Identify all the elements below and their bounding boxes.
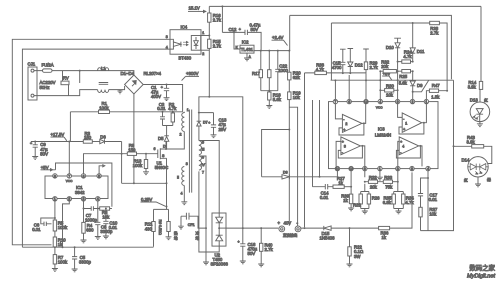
svg-text:10k: 10k bbox=[386, 93, 394, 98]
svg-text:FU/2A: FU/2A bbox=[42, 62, 54, 67]
node VCC to IC1 pin7 bbox=[68, 141, 70, 174]
resistor R33 75k bottom bbox=[383, 175, 398, 189]
svg-text:20k: 20k bbox=[370, 184, 378, 189]
svg-text:+: + bbox=[278, 221, 281, 226]
resistor R30 10k bbox=[380, 84, 397, 98]
node: +2.4V branch bbox=[288, 129, 290, 131]
resistor R6 0.51ohm (vertical text) bbox=[158, 220, 172, 240]
svg-text:150: 150 bbox=[128, 147, 136, 152]
resistor R3 150 bbox=[83, 131, 100, 143]
resistor R20 62k bbox=[288, 71, 302, 81]
resistor R14 3.9k bbox=[468, 6, 483, 103]
wire: opto pin2 to R15 bottom bbox=[201, 49, 209, 51]
svg-text:IC3: IC3 bbox=[378, 127, 385, 132]
svg-text:III: III bbox=[202, 148, 205, 152]
svg-text:3.9k: 3.9k bbox=[467, 139, 476, 144]
svg-text:地: 地 bbox=[174, 236, 178, 241]
svg-text:0.01: 0.01 bbox=[32, 227, 41, 232]
svg-text:红: 红 bbox=[484, 97, 488, 102]
svg-text:1: 1 bbox=[202, 31, 204, 35]
wire: VREF +5V to R8 bbox=[53, 163, 112, 207]
LED D13 red bbox=[470, 97, 490, 126]
svg-text:1: 1 bbox=[425, 100, 427, 104]
wire: pin13 column down bbox=[350, 171, 352, 194]
svg-text:D12: D12 bbox=[355, 62, 363, 67]
wire: D6 drop to primary return bbox=[121, 142, 123, 184]
capacitor C1 47u 400V bbox=[151, 84, 170, 101]
svg-text:+: + bbox=[30, 141, 32, 145]
wire: secondary center tap pin6 bbox=[199, 156, 206, 262]
svg-text:1: 1 bbox=[405, 122, 407, 126]
resistor R22 0.1ohm 3W bbox=[347, 227, 364, 267]
wire: right loop down bbox=[421, 80, 454, 230]
ground: EMI bbox=[118, 90, 123, 94]
svg-text:+: + bbox=[239, 28, 241, 32]
svg-text:7: 7 bbox=[334, 100, 336, 104]
resistor R7 100k bbox=[52, 255, 68, 272]
svg-text:直流输出: 直流输出 bbox=[283, 232, 298, 237]
svg-text:4: 4 bbox=[166, 45, 168, 49]
terminal - output bbox=[295, 221, 301, 232]
node: D8 line tap bbox=[319, 176, 321, 178]
svg-text:2: 2 bbox=[180, 132, 182, 136]
IC2 TL431 bbox=[233, 31, 289, 60]
capacitor C7 1000p bbox=[85, 206, 98, 222]
svg-text:2.7k: 2.7k bbox=[370, 65, 379, 70]
resistor R36 1k bbox=[379, 172, 412, 240]
svg-text:1k: 1k bbox=[343, 198, 348, 203]
wire: IC1 pin4 RT/CT node bbox=[97, 201, 99, 210]
svg-text:4700: 4700 bbox=[332, 65, 342, 70]
resistor R9 150 bbox=[127, 143, 158, 155]
pin labels IC4 bbox=[166, 31, 205, 56]
svg-text:D8: D8 bbox=[283, 170, 288, 174]
svg-text:0.01: 0.01 bbox=[109, 225, 118, 230]
resistor R29 2.7k bbox=[363, 49, 378, 73]
resistor R47 1.5k bbox=[426, 83, 448, 99]
op-amp U3D bbox=[396, 137, 422, 167]
svg-text:50V: 50V bbox=[248, 251, 256, 256]
svg-text:5: 5 bbox=[98, 174, 100, 178]
svg-text:+: + bbox=[208, 121, 210, 125]
resistor R27 1k bbox=[333, 176, 351, 188]
svg-text:50V: 50V bbox=[40, 151, 48, 156]
label +40V DC output bbox=[283, 221, 298, 238]
svg-text:LM324N: LM324N bbox=[375, 133, 391, 138]
resistor R5 100k bbox=[53, 220, 68, 231]
svg-text:VCC: VCC bbox=[376, 105, 383, 109]
svg-text:MyDigit.net: MyDigit.net bbox=[467, 274, 495, 280]
resistor R4 680 bbox=[81, 222, 95, 242]
wire: secondary pin7 loop to U2 bottom bbox=[199, 171, 219, 252]
wire: diagonal to +5V rail bbox=[413, 80, 429, 92]
LM324 bottom pins bbox=[335, 166, 430, 171]
svg-text:+2.4V: +2.4V bbox=[272, 35, 283, 40]
wire: +300V rail from bridge bbox=[143, 85, 182, 112]
wire: opto pin1 to R16/R15 junction bbox=[201, 35, 209, 37]
svg-text:+: + bbox=[161, 85, 163, 89]
svg-text:VCC: VCC bbox=[66, 179, 73, 183]
capacitor C17 0.01 and resistor R37 10k chain bbox=[418, 177, 438, 231]
svg-text:R26: R26 bbox=[372, 195, 380, 200]
diode D15 1N5408 bbox=[320, 226, 336, 241]
capacitor C9 47u 50V bbox=[30, 141, 48, 160]
capacitor C22 1000 bbox=[275, 50, 288, 91]
svg-text:+: + bbox=[403, 127, 405, 131]
optocoupler IC4 BT430 bbox=[170, 24, 201, 60]
svg-text:8: 8 bbox=[54, 174, 56, 178]
svg-text:13: 13 bbox=[349, 167, 353, 171]
label +2.4V bbox=[272, 35, 288, 46]
svg-text:2.7k: 2.7k bbox=[430, 30, 439, 35]
pin 4 bbox=[96, 197, 100, 202]
capacitor C14 0.01 bbox=[313, 184, 334, 200]
svg-text:50Hz: 50Hz bbox=[40, 85, 50, 90]
resistors R31 R26 parallel pair bbox=[353, 171, 380, 214]
svg-text:D11: D11 bbox=[417, 49, 425, 54]
svg-text:R6 0.51Ω: R6 0.51Ω bbox=[158, 220, 162, 236]
svg-text:0.01: 0.01 bbox=[320, 195, 329, 200]
wire: mid vertical taps bbox=[313, 100, 320, 187]
svg-text:CJ1: CJ1 bbox=[28, 62, 36, 67]
node: R17 bottom bus bbox=[261, 90, 278, 92]
svg-text:D5: D5 bbox=[158, 136, 164, 141]
svg-text:15.1V: 15.1V bbox=[189, 5, 200, 10]
svg-text:6: 6 bbox=[364, 167, 366, 171]
svg-text:20k: 20k bbox=[381, 64, 389, 69]
svg-text:数码之家: 数码之家 bbox=[469, 263, 495, 272]
svg-text:D9: D9 bbox=[417, 83, 423, 88]
diode D6 bbox=[100, 134, 122, 143]
wire: gate drive from pin 6 bbox=[84, 154, 128, 174]
svg-text:6: 6 bbox=[83, 174, 85, 178]
resistor R38 4.7k bbox=[315, 62, 366, 74]
connector CJ1 bbox=[28, 62, 38, 101]
svg-text:R25: R25 bbox=[399, 74, 407, 79]
svg-text:25V: 25V bbox=[219, 127, 227, 132]
capacitor C10 0.01 bbox=[103, 208, 118, 239]
pin 3 bbox=[81, 197, 85, 202]
svg-text:12: 12 bbox=[364, 100, 368, 104]
resistor (parallel with R17) bbox=[268, 50, 271, 91]
wire: bridge negative drop bbox=[133, 94, 135, 183]
ground: center tap bbox=[203, 262, 209, 265]
wire: box left edge bbox=[330, 23, 332, 80]
svg-text:10k: 10k bbox=[293, 95, 301, 100]
pin 6 bbox=[81, 174, 85, 179]
svg-text:D14: D14 bbox=[462, 157, 470, 162]
svg-text:RL207×4: RL207×4 bbox=[144, 71, 162, 76]
resistor R32 20k bbox=[380, 59, 397, 73]
svg-text:1: 1 bbox=[379, 167, 381, 171]
resistor R28 2.7k bbox=[331, 21, 447, 90]
wire: AC neutral bottom bbox=[34, 90, 98, 96]
pin 1 bbox=[53, 197, 57, 202]
svg-text:50V: 50V bbox=[251, 27, 259, 32]
svg-text:1k: 1k bbox=[382, 235, 387, 240]
label +5V with arrow bbox=[41, 165, 53, 171]
opto phototransistor bbox=[191, 36, 200, 51]
svg-text:4: 4 bbox=[379, 100, 381, 104]
LM324 top pins bbox=[333, 99, 428, 104]
ground: pin1 bottom bbox=[377, 171, 383, 180]
svg-text:3: 3 bbox=[397, 167, 399, 171]
svg-text:冷: 冷 bbox=[196, 231, 200, 236]
svg-text:1000: 1000 bbox=[278, 68, 288, 73]
op-amp U3A bbox=[398, 104, 427, 134]
svg-text:D13: D13 bbox=[470, 97, 478, 102]
svg-text:2: 2 bbox=[68, 197, 70, 201]
varistor RV bbox=[61, 71, 69, 96]
transformer T primary winding bbox=[180, 108, 189, 137]
pin 8 bbox=[53, 174, 57, 179]
transformer secondary winding bbox=[199, 140, 206, 174]
svg-text:2.7k: 2.7k bbox=[213, 44, 222, 49]
rectifier U2 T450 SF10066 bbox=[211, 213, 229, 267]
inductor L1 common-mode choke bbox=[98, 66, 125, 93]
resistor R25 5.6k bbox=[398, 70, 413, 86]
resistor R40 2.7k bbox=[258, 227, 273, 267]
wire: negative return bbox=[301, 227, 379, 229]
svg-text:1N5408: 1N5408 bbox=[320, 236, 336, 241]
transformer aux winding bbox=[177, 162, 188, 195]
svg-text:7: 7 bbox=[202, 170, 204, 174]
svg-text:R32: R32 bbox=[369, 175, 377, 180]
svg-text:+: + bbox=[238, 240, 240, 244]
watermark bbox=[467, 263, 496, 280]
bridge rectifier D1~D4 RL207x4 bbox=[121, 71, 162, 94]
node: minus rail taps bbox=[304, 227, 306, 229]
node: pin9 column R30 tap bbox=[397, 79, 399, 91]
wire: +5V rail bbox=[331, 79, 454, 81]
fuse FU/2A bbox=[42, 62, 54, 72]
svg-text:3: 3 bbox=[166, 35, 168, 39]
svg-text:0.01: 0.01 bbox=[157, 106, 166, 111]
label +300V bbox=[182, 71, 199, 80]
wire: primary return rail bbox=[122, 182, 167, 184]
svg-text:2: 2 bbox=[345, 122, 347, 126]
svg-text:热: 热 bbox=[174, 231, 178, 236]
svg-text:红: 红 bbox=[464, 177, 468, 182]
op-amp U3B bbox=[335, 104, 365, 135]
LED D14 red/green dual bbox=[462, 157, 492, 187]
diode D8 bbox=[282, 170, 289, 179]
wire: pin4 VCC column bbox=[379, 71, 381, 99]
svg-text:1.5k: 1.5k bbox=[431, 94, 440, 99]
resistor R10 1k bbox=[53, 237, 66, 248]
svg-text:IC2: IC2 bbox=[242, 39, 249, 44]
wire: pin7 column up bbox=[334, 79, 336, 99]
label 0.25V bbox=[141, 197, 166, 207]
svg-text:4.7k: 4.7k bbox=[403, 54, 412, 59]
resistor R43 3.9k bbox=[453, 135, 492, 164]
wire: ground return rail bbox=[22, 246, 153, 248]
svg-text:2: 2 bbox=[202, 52, 204, 56]
svg-text:3: 3 bbox=[83, 197, 85, 201]
svg-text:400V: 400V bbox=[151, 94, 161, 99]
terminal + output bbox=[278, 221, 285, 232]
node: live junction bbox=[79, 70, 81, 83]
svg-text:7: 7 bbox=[68, 174, 70, 178]
wire: second rail bbox=[290, 15, 452, 79]
wire: minus sense column bbox=[289, 107, 297, 226]
wire: IC1 pin3 column bbox=[83, 201, 92, 240]
svg-text:+17.5V: +17.5V bbox=[51, 132, 65, 137]
wire: +40V output rail bbox=[226, 227, 278, 229]
svg-text:8: 8 bbox=[411, 167, 413, 171]
svg-text:11: 11 bbox=[336, 167, 340, 171]
resistor R39 1k bbox=[341, 194, 354, 211]
svg-text:3842: 3842 bbox=[75, 190, 85, 195]
svg-text:+: + bbox=[400, 140, 402, 144]
svg-text:2.7k: 2.7k bbox=[265, 247, 274, 252]
ground: aux pin4 bbox=[181, 191, 187, 205]
svg-text:CF1: CF1 bbox=[188, 223, 195, 227]
resistor R1 100k bbox=[70, 101, 182, 141]
svg-text:II: II bbox=[177, 176, 179, 180]
svg-text:+300V: +300V bbox=[186, 71, 199, 76]
wire +17.5V VCC rail bbox=[31, 141, 83, 143]
svg-text:9: 9 bbox=[397, 100, 399, 104]
svg-text:R17: R17 bbox=[252, 71, 260, 76]
node: gate junction bbox=[121, 153, 147, 155]
transformer core bbox=[189, 110, 191, 193]
svg-text:3.9k: 3.9k bbox=[468, 85, 477, 90]
node: R24/R25 junctions bbox=[379, 61, 413, 73]
svg-text:地: 地 bbox=[196, 236, 200, 241]
svg-text:D10: D10 bbox=[386, 45, 394, 50]
wire: +2.4V reference column bbox=[288, 15, 290, 225]
wire: pin5 hook arrow bbox=[99, 165, 105, 174]
capacitor CF1 Y-cap bbox=[178, 213, 207, 229]
svg-text:4: 4 bbox=[97, 197, 99, 201]
svg-text:1: 1 bbox=[54, 197, 56, 201]
label +5V tick bbox=[382, 71, 392, 80]
svg-text:0.25V: 0.25V bbox=[141, 197, 152, 202]
diode D7 bbox=[197, 113, 208, 126]
svg-text:D7: D7 bbox=[203, 121, 208, 125]
resistor R11 430 bbox=[145, 222, 155, 247]
svg-text:4.7k: 4.7k bbox=[168, 106, 177, 111]
svg-text:IC4: IC4 bbox=[181, 24, 188, 29]
capacitor C16 470u 50V bbox=[238, 227, 258, 264]
capacitor C3 0.01 (clamp) bbox=[157, 102, 166, 126]
svg-text:D1~D4: D1~D4 bbox=[121, 71, 135, 76]
svg-text:R47: R47 bbox=[432, 83, 440, 88]
node: bridge return join bbox=[133, 182, 135, 184]
resistor R32b 20k bottom bbox=[364, 175, 384, 189]
resistor R15 2.7k bbox=[208, 35, 222, 98]
diode D10 bbox=[386, 38, 401, 99]
svg-text:SF10066: SF10066 bbox=[211, 262, 229, 267]
svg-text:150: 150 bbox=[84, 135, 92, 140]
svg-text:4: 4 bbox=[402, 145, 404, 149]
resistor R13 100k bbox=[133, 154, 149, 175]
svg-text:5.6k: 5.6k bbox=[399, 81, 408, 86]
svg-text:3300p: 3300p bbox=[79, 259, 92, 264]
svg-text:680: 680 bbox=[86, 227, 94, 232]
wire: top 15.1V rail bbox=[209, 5, 481, 7]
opto LED emitter bbox=[170, 39, 188, 49]
diode D11 bbox=[410, 22, 425, 62]
svg-text:100k: 100k bbox=[58, 259, 68, 264]
svg-text:5.6k: 5.6k bbox=[273, 97, 282, 102]
svg-text:R31: R31 bbox=[353, 202, 361, 207]
op-amp U3C bbox=[336, 137, 365, 167]
resistor R2 4.7k (clamp) bbox=[163, 102, 178, 136]
IC1 UC3842 box bbox=[45, 176, 108, 199]
diode D12 zener bbox=[348, 49, 364, 75]
svg-text:R30: R30 bbox=[386, 84, 394, 89]
svg-text:+5V: +5V bbox=[41, 165, 49, 170]
svg-text:1000p: 1000p bbox=[85, 217, 98, 222]
svg-text:75k: 75k bbox=[385, 184, 393, 189]
svg-text:100k: 100k bbox=[99, 106, 109, 111]
svg-text:IV: IV bbox=[202, 163, 206, 167]
svg-text:40V: 40V bbox=[284, 221, 292, 226]
svg-text:R33: R33 bbox=[384, 175, 392, 180]
transistor Q1/U1 5N60C MOSFET bbox=[154, 145, 169, 184]
svg-text:6.8k: 6.8k bbox=[383, 200, 392, 205]
diode D5 clamp bbox=[158, 136, 169, 149]
resistor R8 10k bbox=[98, 207, 112, 220]
svg-text:2: 2 bbox=[412, 100, 414, 104]
svg-text:2.7k: 2.7k bbox=[213, 17, 222, 22]
capacitor C15 4700 bbox=[332, 49, 346, 74]
label AC220V 50Hz bbox=[40, 80, 56, 90]
svg-text:62k: 62k bbox=[293, 75, 301, 80]
resistor R16 2.7k bbox=[208, 6, 222, 39]
resistor R18 5.6k bbox=[266, 90, 281, 109]
pin 2 bbox=[67, 197, 71, 202]
pin 7 VCC bbox=[66, 174, 73, 184]
wire: IC1 pin1 COMP column bbox=[54, 201, 56, 269]
svg-text:4: 4 bbox=[181, 191, 183, 195]
svg-text:100k: 100k bbox=[133, 163, 143, 168]
capacitor C12 0.47u 50V bbox=[222, 23, 261, 51]
label hot/cold ground bbox=[174, 231, 200, 241]
svg-text:4.7k: 4.7k bbox=[405, 200, 414, 205]
svg-text:+: + bbox=[342, 140, 344, 144]
svg-text:S: S bbox=[162, 154, 165, 158]
node: current sense bbox=[154, 183, 169, 221]
wire: pin4 column to box bottom bbox=[427, 171, 429, 231]
resistor R19 10k bbox=[288, 90, 302, 100]
wire: pin12 column up bbox=[365, 73, 367, 99]
label 15.1V arrow bbox=[188, 5, 206, 12]
svg-text:430: 430 bbox=[145, 226, 153, 231]
diode D9 bbox=[410, 71, 423, 99]
IC3 LM324N box bbox=[329, 102, 439, 169]
resistor R24 4.7k bbox=[398, 49, 413, 63]
svg-text:D6: D6 bbox=[100, 134, 106, 139]
resistors R35 R34 parallel pair bbox=[383, 171, 415, 214]
svg-text:6: 6 bbox=[348, 100, 350, 104]
svg-text:C12: C12 bbox=[229, 27, 237, 32]
svg-text:+: + bbox=[343, 128, 345, 132]
resistor R17 bbox=[252, 50, 263, 91]
wire: R38 sense branch bbox=[305, 73, 315, 227]
svg-text:BT430: BT430 bbox=[179, 55, 192, 60]
svg-text:10k: 10k bbox=[429, 211, 437, 216]
svg-text:TL431: TL431 bbox=[241, 47, 254, 52]
node: top rail to C12 branch bbox=[221, 5, 223, 32]
wire: D8 sense line bbox=[262, 130, 338, 177]
svg-text:4.7k: 4.7k bbox=[316, 67, 325, 72]
svg-text:3: 3 bbox=[186, 162, 188, 166]
wire: AC live top bbox=[34, 71, 134, 75]
svg-text:1: 1 bbox=[187, 108, 189, 112]
